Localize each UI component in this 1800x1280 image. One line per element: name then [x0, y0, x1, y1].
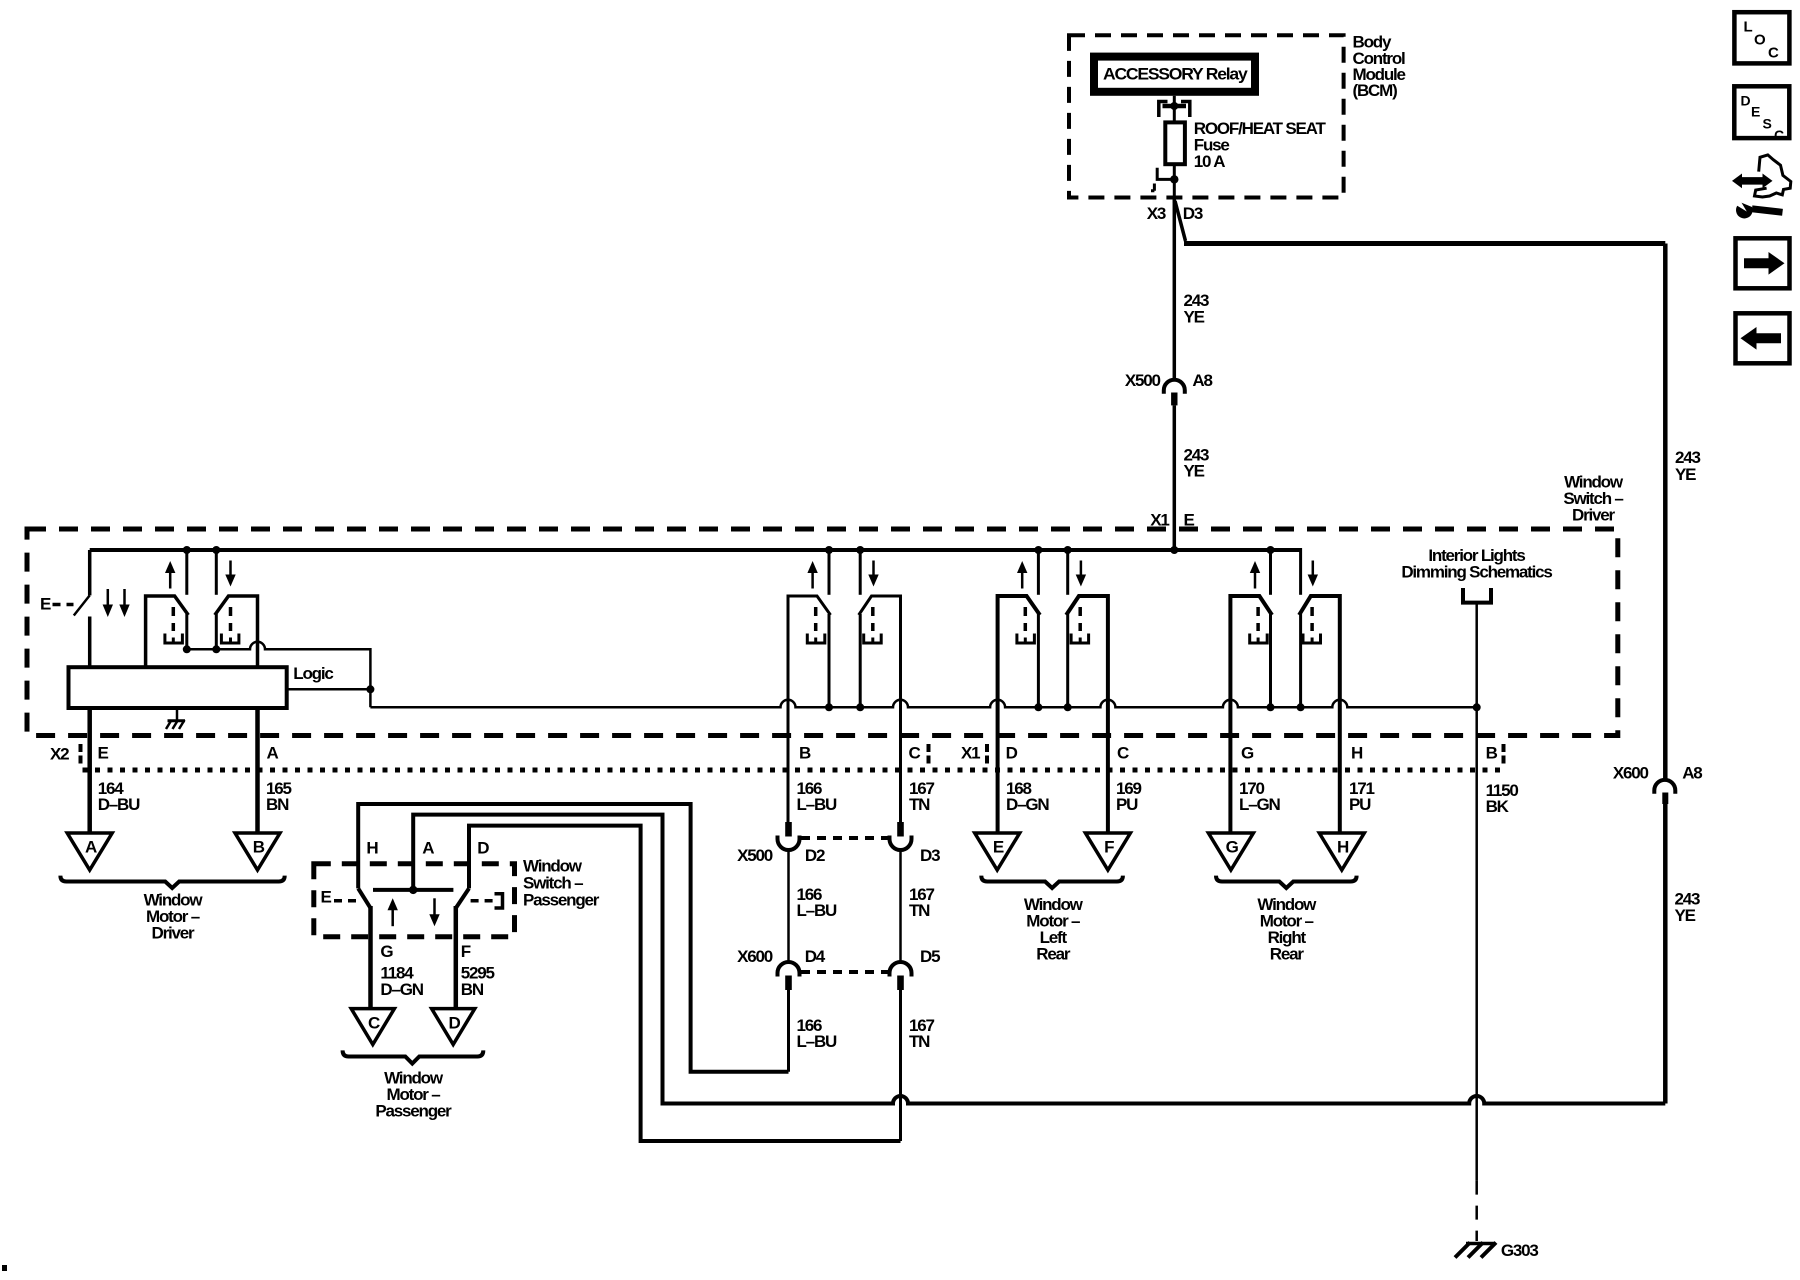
label: connector X1 pin E: [1150, 511, 1194, 530]
label: wire 243 YE (below X500): [1184, 445, 1210, 480]
connector row: dotted harness line: [83, 768, 1502, 773]
svg-text:A: A: [267, 743, 279, 762]
brace: window motor passenger group: [343, 1050, 484, 1063]
switch contact E: driver lockout/express contact upper wire: [88, 550, 92, 595]
wire: 167 TN below X600 D5 to passenger switch pin D: [899, 990, 902, 1141]
label: wire 5295 BN: [461, 963, 495, 999]
svg-text:A: A: [422, 839, 434, 858]
terminal triangle D: window motor passenger: [432, 1009, 475, 1045]
svg-text:D: D: [1741, 93, 1751, 109]
junction: X1 E feed to bus: [1170, 546, 1178, 554]
wire: 1150 BK from bus through pin B down: [1475, 707, 1478, 1180]
wire: logic output: [287, 688, 371, 691]
switch S1b + wire to pin C: passenger window DOWN contact (driver switch): [856, 546, 900, 822]
svg-text:TN: TN: [909, 1032, 930, 1051]
wire: 5295 BN passenger motor down: [454, 906, 459, 1009]
switch S3b + wire to pin H: right rear window DOWN contact (driver switch): [1297, 548, 1340, 833]
svg-text:X2: X2: [50, 744, 69, 763]
svg-text:X1: X1: [961, 743, 980, 762]
brace: window motor right rear group: [1216, 876, 1357, 888]
wire: branch diagonal at X3 D3: [1175, 201, 1186, 241]
svg-text:YE: YE: [1184, 462, 1205, 481]
wire: switch common line to logic junction: [187, 642, 371, 708]
brace: window motor driver group: [60, 876, 284, 888]
terminal triangle H: window motor right rear: [1319, 833, 1364, 870]
svg-text:E: E: [1751, 104, 1760, 120]
label: pin B (X1): [1486, 743, 1504, 766]
label: ROOF/HEAT SEAT Fuse 10 A: [1194, 119, 1327, 171]
label: X600 A8 (right side): [1613, 764, 1702, 783]
label: wire 169 PU: [1116, 779, 1142, 814]
mechanical link right bracket (passenger): [471, 894, 503, 908]
fuse top terminal bar: [1163, 104, 1187, 109]
svg-text:Logic: Logic: [293, 664, 333, 683]
wire: interior lights feed to bus: [1475, 605, 1478, 708]
icon: back arrow box: [1736, 313, 1790, 363]
label: wire 166 L-BU: [797, 779, 838, 814]
wire: 166 L-BU below X600 D4 to passenger switch pin H: [787, 990, 790, 1072]
label: X600 D4: [737, 947, 826, 966]
inline connector X500 pin A8 (female arc): [1164, 380, 1185, 394]
wire: express switch lower contact to logic body: [88, 617, 92, 668]
switch contact S0b: driver window DOWN contact: [212, 546, 257, 667]
wire: 166 L-BU between X500 D2 and X600 D4: [787, 850, 790, 963]
svg-text:BN: BN: [266, 795, 289, 814]
svg-text:X500: X500: [1125, 371, 1161, 390]
label: wire 170 L-GN: [1239, 779, 1280, 814]
fuse holder clip right: [1181, 102, 1190, 118]
wire: pin H feed (from X500 D2 chain): [358, 804, 788, 1072]
label: wire 243 YE (right lower): [1675, 890, 1701, 925]
actuation arrows: double down (driver window auto-down): [103, 589, 130, 617]
svg-text:(BCM): (BCM): [1353, 81, 1398, 100]
svg-text:B: B: [253, 838, 265, 857]
terminal triangle A: window motor driver: [67, 833, 112, 870]
junction: pin A to rocker bar: [409, 886, 417, 894]
dashed link X600 D4-D5: [801, 970, 888, 974]
svg-text:A8: A8: [1682, 764, 1702, 783]
terminal triangle B: window motor driver: [235, 833, 280, 870]
svg-text:C: C: [1774, 127, 1784, 143]
wire: 165 BN from body pin A to motor: [255, 708, 260, 833]
wire: 164 D-BU from body pin E to motor: [87, 708, 92, 833]
switch: passenger rocker common bar: [373, 888, 453, 892]
wire: 243 YE from X500 A8 down to X1 E: [1173, 405, 1177, 550]
svg-text:YE: YE: [1675, 465, 1696, 484]
svg-text:X600: X600: [1613, 764, 1649, 783]
svg-text:B: B: [799, 743, 811, 762]
svg-text:L–BU: L–BU: [797, 1032, 838, 1051]
switch S1a + wire to pin B: passenger window UP contact (driver switch): [788, 546, 833, 822]
terminal triangle G: window motor right rear: [1208, 833, 1253, 870]
label: wire 166 L-BU (mid): [797, 885, 838, 920]
switch S2a + wire to pin D: left rear window UP contact (driver switch): [998, 546, 1043, 833]
svg-text:Driver: Driver: [152, 924, 196, 943]
component body: driver window motor drive block: [69, 667, 287, 708]
label: wire 165 BN: [266, 779, 292, 814]
svg-text:B: B: [1486, 743, 1498, 762]
label: Window Motor - Driver: [144, 891, 204, 943]
svg-text:D3: D3: [1183, 204, 1203, 223]
svg-text:D: D: [448, 1013, 460, 1032]
dashed link X500 D2-D3: [801, 836, 888, 840]
svg-text:BN: BN: [461, 980, 484, 999]
wire: 243 YE below X600 A8 down to passenger feed: [1663, 804, 1668, 1104]
label: wire 166 L-BU (lower): [797, 1016, 838, 1051]
svg-text:D3: D3: [920, 846, 940, 865]
inline connector X600 pin A8 (female arc): [1654, 780, 1675, 794]
terminal triangle E: window motor left rear: [975, 833, 1020, 870]
label: wire 171 PU: [1349, 779, 1375, 814]
wire: pin A feed 243 YE: [413, 815, 1665, 1104]
inline connector X600 pin D5 (female arc): [890, 962, 912, 976]
svg-text:S: S: [1763, 116, 1772, 132]
label: Window Motor - Left Rear: [1024, 895, 1084, 964]
svg-text:O: O: [1754, 32, 1766, 49]
wire: supply bus inside driver switch: [90, 548, 1301, 552]
wire: 243 YE branch across top to right side: [1184, 241, 1665, 246]
svg-text:Driver: Driver: [1572, 506, 1616, 525]
icon: swap/tools symbol: [1732, 155, 1791, 219]
label: Window Motor - Passenger: [375, 1068, 452, 1120]
svg-text:C: C: [368, 1013, 380, 1032]
label: wire 243 YE (right-side upper): [1675, 448, 1701, 484]
icon: DESC navigation box: [1734, 86, 1789, 143]
svg-text:F: F: [1104, 838, 1114, 857]
fuse F: ROOF/HEAT SEAT Fuse 10 A body: [1165, 122, 1185, 164]
svg-text:D–GN: D–GN: [1006, 795, 1049, 814]
svg-text:D–BU: D–BU: [98, 795, 140, 814]
svg-text:PU: PU: [1349, 795, 1371, 814]
label: node E (mechanical link): [40, 594, 74, 613]
label: node E (mechanical link, passenger): [321, 888, 357, 907]
label: X500 D2: [737, 846, 825, 865]
switch blade: passenger UP side: [358, 888, 370, 908]
svg-text:F: F: [461, 942, 471, 961]
svg-text:H: H: [1337, 838, 1349, 857]
svg-text:ACCESSORY Relay: ACCESSORY Relay: [1103, 64, 1248, 83]
ground: driver switch internal ground: [166, 708, 185, 729]
svg-text:YE: YE: [1184, 307, 1205, 326]
inline connector X500 pin D3 (male pin): [897, 822, 904, 837]
junction: hook to wire: [1170, 175, 1178, 183]
fuse holder clip left: [1159, 102, 1168, 118]
inline connector X500 pin A8 (male pin): [1171, 393, 1177, 406]
label: Interior Lights Dimming Schematics: [1401, 546, 1552, 582]
wire: common supply bus (bottom, inside driver switch): [370, 700, 1476, 707]
svg-text:D: D: [477, 839, 489, 858]
label: wire 243 YE (upper left segment): [1184, 291, 1210, 326]
switch blade: passenger DOWN side: [456, 888, 469, 908]
svg-text:G: G: [380, 942, 393, 961]
label: Window Motor - Right Rear: [1257, 895, 1317, 964]
svg-text:X3: X3: [1147, 204, 1166, 223]
switch blade: driver express switch: [74, 595, 90, 615]
wire: relay output to fuse: [1173, 96, 1176, 123]
connector hook lower at BCM exit: [1151, 184, 1154, 191]
svg-text:Passenger: Passenger: [375, 1102, 452, 1121]
svg-text:G303: G303: [1501, 1241, 1539, 1260]
svg-text:X600: X600: [737, 947, 773, 966]
wire: fuse to BCM boundary: [1173, 164, 1176, 203]
inline connector X500 pin D2 (female arc): [778, 836, 800, 851]
inline connector X600 pin A8 (male pin): [1662, 793, 1668, 805]
svg-text:D5: D5: [920, 947, 940, 966]
label: wire 1150 BK: [1486, 781, 1519, 816]
label: wire 168 D-GN: [1006, 779, 1049, 814]
icon: next arrow box: [1736, 238, 1790, 288]
svg-text:H: H: [1351, 743, 1363, 762]
label: pin C (X2): [909, 743, 929, 766]
svg-text:C: C: [1768, 45, 1779, 62]
svg-text:C: C: [909, 743, 921, 762]
label: wire 167 TN: [909, 779, 935, 814]
icon: LOC navigation box: [1734, 12, 1789, 63]
svg-text:A: A: [85, 838, 97, 857]
wire: 1150 BK dashed segment to ground: [1475, 1181, 1478, 1241]
svg-text:10 A: 10 A: [1194, 152, 1225, 171]
svg-text:D–GN: D–GN: [380, 980, 423, 999]
svg-text:A8: A8: [1192, 371, 1212, 390]
connector hook upper at BCM exit: [1157, 168, 1171, 180]
terminal triangle C: window motor passenger: [351, 1009, 394, 1045]
inline connector X500 pin D3 (female arc): [890, 836, 912, 851]
relay K: ACCESSORY Relay (bold box): [1094, 57, 1255, 92]
label: Body Control Module (BCM): [1353, 33, 1406, 101]
wire: 243 YE main feed from X3 D3 down to X500: [1173, 198, 1177, 380]
component box: Window Switch - Driver dashed outline: [27, 529, 1618, 736]
terminal triangle F: window motor left rear: [1085, 833, 1130, 870]
switch S2b + wire to pin C: left rear window DOWN contact (driver switch): [1064, 546, 1108, 833]
svg-text:TN: TN: [909, 901, 930, 920]
svg-text:L: L: [1744, 19, 1753, 36]
component box: Window Switch - Passenger dashed outline: [314, 864, 515, 937]
junction: wire to fuse terminal: [1170, 102, 1178, 110]
actuation arrow up (passenger switch): [388, 898, 398, 926]
svg-text:L–BU: L–BU: [797, 901, 838, 920]
inline connector X600 pin D5 (male pin): [897, 976, 904, 991]
svg-text:D4: D4: [805, 947, 826, 966]
label: Window Switch - Driver: [1563, 473, 1624, 525]
off-page reference symbol: interior lights dimming: [1463, 588, 1491, 603]
actuation arrow down (passenger switch): [429, 898, 439, 926]
svg-text:E: E: [40, 594, 51, 613]
label: connector X1: [961, 743, 987, 766]
svg-text:YE: YE: [1675, 906, 1696, 925]
svg-text:Passenger: Passenger: [523, 890, 600, 909]
svg-text:TN: TN: [909, 795, 930, 814]
svg-text:X500: X500: [737, 846, 773, 865]
svg-text:D2: D2: [805, 846, 825, 865]
svg-text:H: H: [366, 839, 378, 858]
label: connector X2: [50, 744, 81, 766]
wire: 243 YE right-side drop: [1663, 244, 1668, 780]
svg-text:L–GN: L–GN: [1239, 795, 1280, 814]
switch S3a + wire to pin G: right rear window UP contact (driver switch): [1230, 546, 1274, 833]
inline connector X600 pin D4 (male pin): [785, 976, 792, 991]
svg-text:PU: PU: [1116, 795, 1138, 814]
svg-text:Rear: Rear: [1036, 945, 1071, 964]
wire: pin D feed (from X600 D5 chain): [469, 826, 901, 1141]
label: X500 A8: [1125, 371, 1213, 390]
label: wire 164 D-BU: [98, 779, 140, 814]
svg-text:L–BU: L–BU: [797, 795, 838, 814]
svg-text:G: G: [1241, 743, 1254, 762]
wire: 167 TN between X500 D3 and X600 D5: [899, 850, 902, 963]
svg-text:C: C: [1117, 743, 1129, 762]
label: connector X3 pin D3: [1147, 204, 1203, 223]
svg-text:Rear: Rear: [1270, 945, 1305, 964]
brace: window motor left rear group: [981, 876, 1123, 888]
svg-text:Dimming Schematics: Dimming Schematics: [1401, 563, 1552, 582]
svg-text:D: D: [1006, 743, 1018, 762]
ground G303: [1455, 1243, 1496, 1258]
svg-text:G: G: [1226, 838, 1239, 857]
stray printed mark (bottom left): [2, 1265, 7, 1271]
junction: logic output node: [366, 685, 374, 693]
svg-text:E: E: [98, 743, 109, 762]
svg-text:E: E: [321, 888, 332, 907]
svg-text:BK: BK: [1486, 797, 1510, 816]
label: Window Switch - Passenger: [523, 856, 600, 909]
junction: interior lights feed node on bus: [1473, 703, 1481, 711]
label: wire 167 TN (mid): [909, 885, 935, 920]
switch contact S0a: driver window UP contact: [146, 546, 191, 667]
module box: Body Control Module (BCM) dashed outline: [1069, 35, 1344, 197]
svg-text:E: E: [993, 838, 1004, 857]
label: wire 167 TN (lower): [909, 1016, 935, 1051]
inline connector X600 pin D4 (female arc): [778, 962, 800, 976]
inline connector X500 pin D2 (male pin): [785, 822, 792, 837]
wire: 1184 D-GN passenger motor up: [368, 906, 373, 1009]
label: wire 1184 D-GN: [380, 963, 423, 999]
